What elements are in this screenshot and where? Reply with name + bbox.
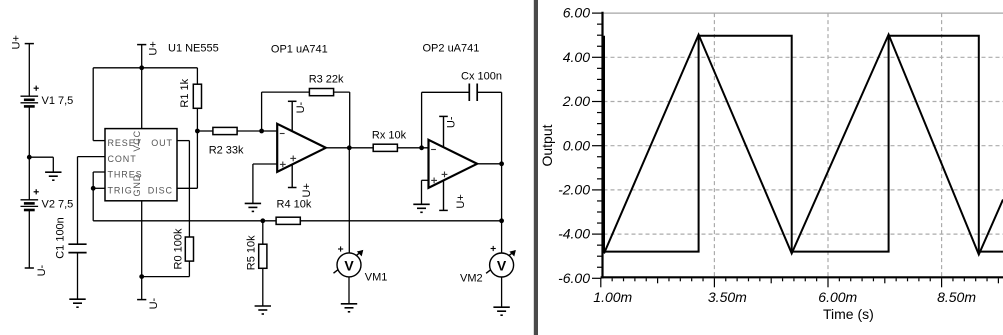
OP1 power pin V+ bottom — [291, 164, 293, 187]
wire — [29, 156, 53, 158]
wire VM1 to ground — [348, 277, 350, 304]
svg-text:OUT: OUT — [151, 138, 173, 148]
wire — [28, 107, 30, 200]
terminal U- (bottom left) — [25, 267, 34, 269]
svg-text:U+: U+ — [10, 35, 22, 49]
svg-text:V1 7,5: V1 7,5 — [42, 95, 74, 107]
wire OUT — [177, 140, 189, 142]
wire OP1 output — [326, 147, 373, 149]
svg-text:4.00: 4.00 — [563, 49, 590, 65]
capacitor C1 100n — [68, 243, 86, 245]
svg-text:OP2 uA741: OP2 uA741 — [423, 43, 480, 55]
chart vertical gridlines — [713, 13, 715, 276]
node junction R1/R2/DISC — [195, 129, 200, 134]
terminal U+ (VCC) — [137, 44, 146, 46]
svg-text:R3 22k: R3 22k — [309, 73, 344, 85]
wire feedback Cx — [421, 92, 423, 148]
svg-text:6.00m: 6.00m — [818, 289, 857, 305]
node junction VCC rail — [139, 65, 144, 70]
svg-text:-2.00: -2.00 — [558, 182, 590, 198]
voltmeter VM2 — [486, 251, 515, 274]
svg-text:U-: U- — [445, 116, 457, 128]
svg-text:U+: U+ — [147, 41, 159, 55]
svg-text:1.00m: 1.00m — [593, 289, 632, 305]
chart Y axis — [601, 12, 603, 279]
svg-text:C1 100n: C1 100n — [55, 217, 67, 259]
wire VM1 tap — [348, 148, 350, 253]
wire VM2 to ground — [501, 277, 503, 307]
svg-text:3.50m: 3.50m — [708, 289, 747, 305]
svg-text:U1 NE555: U1 NE555 — [168, 43, 219, 55]
wire RESET rail — [92, 68, 94, 141]
OP2 power pin V+ bottom — [443, 180, 445, 210]
wire CONT to C1 — [78, 156, 106, 158]
wire — [28, 44, 30, 97]
ground — [45, 171, 61, 173]
node junction TRIG/THRES — [91, 186, 96, 191]
svg-text:Time (s): Time (s) — [823, 306, 874, 322]
svg-text:U+: U+ — [455, 194, 467, 208]
voltmeter VM1 — [334, 251, 363, 274]
svg-text:TRIG: TRIG — [108, 186, 133, 196]
wire GND pin — [141, 201, 143, 300]
wire TRIG — [93, 187, 105, 189]
OP1 power pin V- top — [291, 101, 293, 131]
wire feedback bus — [93, 220, 276, 222]
svg-text:GND: GND — [132, 174, 142, 197]
trace triangle wave — [604, 35, 1003, 255]
svg-text:VM2: VM2 — [460, 273, 483, 285]
svg-text:-4.00: -4.00 — [558, 226, 590, 242]
svg-text:0.00: 0.00 — [563, 137, 590, 153]
svg-text:2.00: 2.00 — [562, 93, 590, 109]
wire — [77, 253, 79, 300]
svg-text:R2 33k: R2 33k — [209, 145, 244, 157]
svg-text:VM1: VM1 — [365, 272, 388, 284]
chart plot top boundary — [603, 12, 1003, 14]
OP2 power pin V- top — [443, 116, 445, 147]
node junction OP1 out — [347, 145, 352, 150]
node junction bus/VM2 — [499, 218, 504, 223]
resistor R1 1k — [196, 68, 198, 84]
resistor R0 100k — [185, 237, 193, 261]
IC U1 NE555 — [105, 129, 177, 201]
svg-text:DISC: DISC — [148, 186, 173, 196]
wire — [28, 210, 30, 268]
chart X axis — [601, 276, 1003, 278]
svg-text:8.50m: 8.50m — [937, 289, 976, 305]
svg-text:R4 10k: R4 10k — [277, 199, 312, 211]
ground — [69, 298, 85, 300]
svg-text:CONT: CONT — [108, 154, 137, 164]
wire R0 to GND rail — [142, 276, 190, 278]
battery V2 7,5 — [21, 199, 39, 201]
svg-text:VCC: VCC — [132, 130, 142, 152]
resistor Rx 10k — [373, 144, 397, 151]
panel divider — [534, 0, 538, 335]
chart Y axis ticks — [592, 12, 602, 14]
wire VCC — [141, 45, 143, 129]
ground — [255, 305, 271, 307]
svg-text:6.00: 6.00 — [563, 5, 590, 21]
ground — [245, 202, 261, 204]
terminal U+ (top left) — [25, 43, 34, 45]
node junction — [27, 155, 32, 160]
trace square wave — [604, 36, 1003, 252]
wire R2 to OP1 — [262, 130, 278, 132]
terminal U- (GND) — [137, 299, 146, 301]
node junction R5/bus — [260, 218, 265, 223]
node junction GND rail — [139, 274, 144, 279]
svg-text:V2 7,5: V2 7,5 — [42, 198, 74, 210]
chart X axis ticks — [600, 278, 602, 287]
svg-text:R5 10k: R5 10k — [246, 235, 258, 270]
wire OP2 output — [477, 163, 502, 165]
svg-text:U-: U- — [36, 264, 48, 276]
resistor R5 10k — [262, 221, 264, 244]
svg-text:Rx 10k: Rx 10k — [372, 130, 407, 142]
wire top rail — [93, 67, 197, 69]
svg-text:Cx 100n: Cx 100n — [461, 70, 502, 82]
svg-text:R0 100k: R0 100k — [173, 228, 185, 269]
svg-text:R1 1k: R1 1k — [179, 78, 191, 107]
wire THRES — [93, 171, 105, 173]
svg-text:V: V — [344, 257, 354, 273]
node junction Rx/Cx/OP2 — [419, 145, 424, 150]
resistor R3 22k — [309, 89, 333, 96]
node junction OP2 out — [499, 161, 504, 166]
svg-text:U-: U- — [295, 101, 307, 113]
node junction R2/R3/OP1 — [259, 129, 264, 134]
wire DISC — [177, 187, 197, 189]
svg-text:V: V — [497, 257, 507, 273]
svg-text:U+: U+ — [301, 183, 313, 197]
ground — [413, 203, 429, 205]
battery V1 7,5 — [21, 95, 39, 97]
wire VM2 tap — [501, 164, 503, 253]
svg-text:OP1 uA741: OP1 uA741 — [271, 44, 328, 56]
svg-text:-6.00: -6.00 — [558, 270, 590, 286]
resistor R2 33k — [197, 130, 213, 132]
chart horizontal gridlines — [604, 56, 1003, 58]
svg-text:Output: Output — [539, 124, 555, 166]
ground — [341, 303, 357, 305]
wire feedback R3 — [261, 92, 263, 131]
ground — [493, 306, 509, 308]
svg-text:U-: U- — [148, 297, 160, 309]
capacitor Cx 100n — [468, 84, 470, 102]
wire OP1 + input to ground — [253, 163, 277, 165]
resistor R4 10k — [276, 217, 300, 224]
wire OP2 + input to ground — [422, 179, 429, 181]
